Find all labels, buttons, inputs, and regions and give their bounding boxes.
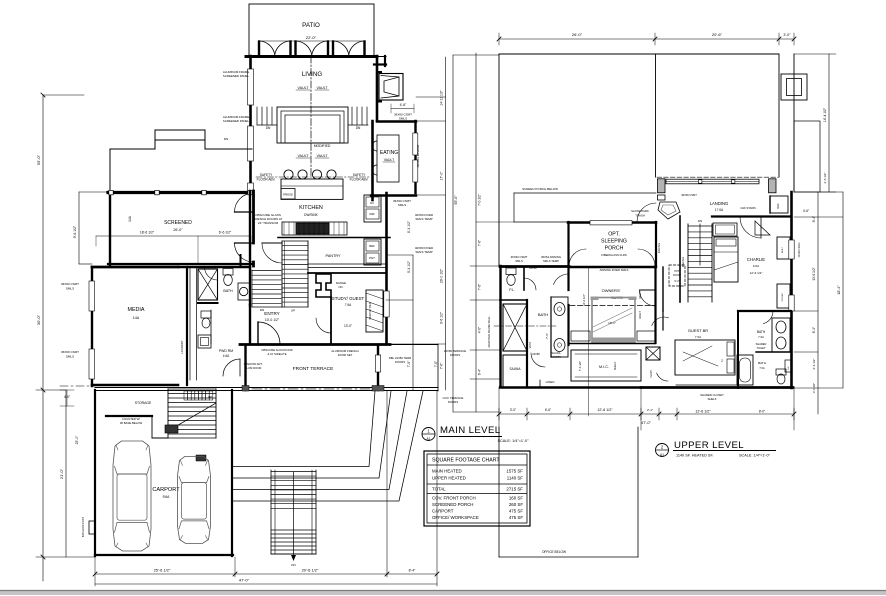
wall in jack bath [756, 351, 790, 353]
svg-text:AWNING WINDOW: AWNING WINDOW [416, 144, 420, 167]
svg-text:OPT.: OPT. [608, 232, 620, 238]
patio door swing arcs [333, 41, 349, 55]
svg-text:475 SF: 475 SF [509, 515, 523, 520]
svg-text:DOORS: DOORS [395, 360, 405, 364]
patio door swing arcs [296, 41, 312, 55]
svg-text:A1: A1 [660, 453, 664, 457]
kitchen island [281, 179, 343, 199]
vanity two sinks [551, 297, 568, 357]
guard rail [151, 416, 153, 438]
mullion 2 [732, 180, 735, 183]
wall band east outer [793, 54, 795, 192]
roof outline top upper [499, 53, 779, 55]
door sauna hall [531, 353, 545, 367]
wall west sleeping porch [567, 222, 569, 266]
wall post gray 2 [769, 179, 777, 193]
guest bed [675, 340, 735, 375]
svg-text:7'-6": 7'-6" [440, 362, 444, 369]
bottom dim row 1 [95, 573, 437, 575]
pantry shelf 2 [308, 267, 386, 269]
door charlie [740, 217, 761, 238]
sauna box [503, 355, 527, 387]
balcony east rect [794, 121, 820, 192]
svg-text:LN: LN [788, 366, 790, 369]
wall east sleeping porch [655, 222, 657, 266]
outdoor stair rail W inner [274, 470, 276, 554]
svg-text:SAFETY: SAFETY [260, 173, 273, 177]
svg-text:3'-0": 3'-0" [783, 33, 791, 37]
svg-text:26'-0": 26'-0" [173, 228, 183, 232]
screen porch roof line [514, 221, 569, 223]
screened panel west living [248, 183, 254, 191]
upper stair treads [688, 225, 712, 227]
svg-text:EATING: EATING [380, 150, 398, 156]
patio door jamb [289, 42, 291, 57]
svg-text:2: 2 [721, 359, 723, 363]
wall north eating nook [377, 120, 416, 122]
svg-text:BATH: BATH [538, 312, 548, 317]
shower main bath [198, 269, 218, 300]
study desk hatch [366, 290, 383, 332]
svg-text:30'-0": 30'-0" [36, 314, 41, 325]
svg-text:TOTAL: TOTAL [432, 487, 446, 492]
living step west [261, 107, 263, 125]
svg-text:7'-6": 7'-6" [478, 240, 482, 246]
svg-text:ALUM DOOR: ALUM DOOR [245, 366, 262, 370]
svg-text:MURPHY BED: MURPHY BED [368, 302, 372, 319]
svg-text:MODIFIED: MODIFIED [314, 144, 331, 148]
svg-text:7 6A: 7 6A [759, 366, 765, 370]
svg-text:SMLS: SMLS [515, 259, 523, 263]
hall line [189, 267, 191, 380]
square footage chart table [424, 451, 530, 526]
living step east [351, 107, 353, 125]
svg-text:LAUNDRY: LAUNDRY [180, 340, 184, 353]
door sleeping porch W [569, 249, 586, 266]
laundry chute X box [646, 347, 660, 360]
svg-text:UP: UP [291, 309, 295, 313]
upper shower X box [503, 304, 527, 351]
closet line guest [676, 384, 740, 386]
svg-text:DN: DN [224, 137, 228, 141]
svg-text:DN: DN [266, 126, 271, 130]
roof dash above north wall [657, 176, 778, 178]
svg-text:SAUNA: SAUNA [552, 351, 561, 355]
patio door swing arcs [259, 41, 275, 55]
terrace edge outer [95, 387, 438, 389]
patio door jamb [294, 42, 296, 57]
outdoor stair center line [293, 472, 295, 559]
wall east shower col [526, 300, 528, 387]
living step west [271, 107, 273, 125]
terrace east wall [377, 345, 379, 390]
svg-text:7'-6": 7'-6" [545, 333, 549, 339]
svg-text:36X60 CSMT: 36X60 CSMT [61, 282, 79, 286]
door sleeping porch E [638, 249, 655, 266]
hall east wall [662, 267, 664, 311]
upper level title circle [656, 444, 669, 457]
svg-text:BATH: BATH [223, 289, 233, 293]
door small [657, 373, 668, 381]
fridge box [281, 189, 295, 200]
svg-text:SMLS TEMP: SMLS TEMP [415, 217, 432, 221]
tall cabinet [364, 239, 381, 265]
svg-text:REF: REF [776, 203, 780, 209]
svg-text:SCREENED PANEL: SCREENED PANEL [223, 74, 250, 78]
svg-text:12'-6 1/2": 12'-6 1/2" [695, 410, 711, 414]
svg-text:SHELF: SHELF [707, 397, 716, 401]
roof outline west upper [498, 54, 500, 266]
patio door jamb [363, 42, 365, 57]
flue niche [316, 274, 331, 297]
wall east suite [654, 266, 656, 343]
svg-text:1575 SF: 1575 SF [506, 469, 523, 474]
svg-text:SMLS: SMLS [399, 117, 407, 121]
svg-text:24X80: 24X80 [532, 352, 540, 356]
terrace west wall [244, 346, 246, 390]
svg-text:FRONT TERRACE: FRONT TERRACE [293, 366, 334, 372]
svg-text:12'-6 1/2": 12'-6 1/2" [582, 294, 586, 306]
svg-text:SCREEN PORCH BELOW: SCREEN PORCH BELOW [522, 187, 558, 191]
svg-text:DOOR SET: DOOR SET [338, 353, 353, 357]
car 2 in carport [178, 457, 211, 544]
charlie bed [714, 237, 738, 282]
chimney box [781, 74, 807, 100]
svg-text:SMLS: SMLS [66, 355, 74, 359]
eating chair 1 [372, 141, 377, 151]
svg-text:SMLS TEMP: SMLS TEMP [543, 259, 559, 263]
svg-text:PANTRY: PANTRY [551, 355, 562, 359]
owners bed (vertical, gray) [592, 298, 635, 343]
wall west living [249, 56, 252, 191]
svg-text:9'6A: 9'6A [163, 495, 170, 499]
wall east eating nook [414, 121, 416, 193]
entry door [257, 322, 259, 344]
tub jack bath [737, 355, 753, 385]
window sleeping porch [590, 221, 632, 225]
dim col far left [42, 95, 44, 581]
wall west entry lower [249, 305, 251, 344]
pwd wall [210, 310, 212, 344]
wall south screened porch [108, 263, 252, 265]
ref closet landing [770, 196, 788, 213]
svg-text:RAILING: RAILING [681, 257, 685, 267]
svg-text:VAULT: VAULT [638, 311, 642, 319]
nightstand W [571, 331, 590, 341]
svg-text:PATIO: PATIO [302, 22, 320, 29]
svg-text:22'-0": 22'-0" [306, 35, 317, 40]
terrace hatched piers [372, 386, 384, 392]
eating table [377, 135, 399, 182]
dim col right upper [828, 54, 830, 192]
svg-text:DN: DN [698, 219, 702, 223]
svg-text:SQUARE FOOTAGE CHART: SQUARE FOOTAGE CHART [432, 458, 500, 464]
outdoor stair treads upper flight [271, 471, 316, 473]
svg-text:7 6A: 7 6A [695, 335, 701, 339]
wall west charlie bath [737, 311, 739, 388]
terrace north edge E [390, 344, 438, 346]
svg-text:16'-1": 16'-1" [608, 321, 616, 325]
svg-text:17'-0": 17'-0" [440, 171, 444, 180]
svg-text:SLEEPING: SLEEPING [601, 239, 627, 245]
wall south carport [95, 554, 233, 556]
wic outline [571, 350, 641, 381]
svg-text:8'-4 1/2": 8'-4 1/2" [407, 220, 411, 233]
kitchen stool [327, 170, 336, 179]
charlie dresser box [713, 223, 737, 236]
dim col far right [842, 192, 844, 388]
svg-text:14A: 14A [133, 316, 140, 320]
bottom dims upper plan [499, 413, 794, 415]
wall west carport [94, 390, 96, 556]
door landing-porch roof [637, 203, 656, 222]
svg-text:& 1F SIDELITE: & 1F SIDELITE [267, 352, 286, 356]
svg-text:P.L.: P.L. [509, 288, 515, 292]
svg-text:BATH: BATH [757, 330, 766, 334]
corner box below post [658, 195, 666, 200]
svg-text:OV: OV [370, 201, 374, 205]
svg-text:7'-0": 7'-0" [407, 360, 411, 367]
toilet PL tank [506, 268, 516, 275]
door guest [652, 317, 669, 326]
svg-text:SHELF: SHELF [613, 361, 617, 370]
svg-text:DN: DN [291, 563, 295, 567]
door bath jack [763, 311, 773, 324]
closet box [198, 335, 211, 348]
svg-text:7 6A: 7 6A [758, 335, 764, 339]
svg-text:FIBERGLASS FLRS: FIBERGLASS FLRS [601, 253, 627, 257]
svg-text:MAIN HEATED: MAIN HEATED [432, 469, 462, 474]
svg-text:26'-0": 26'-0" [572, 32, 583, 37]
living step east [361, 107, 363, 125]
wall west owners suite upper [567, 266, 569, 290]
stone veneer post [89, 521, 95, 534]
terrace east window [375, 355, 380, 372]
svg-text:7'-0 1/2": 7'-0 1/2" [478, 194, 482, 206]
wall west screened porch [109, 192, 111, 265]
svg-text:2'-6 1/2": 2'-6 1/2" [823, 173, 827, 184]
svg-text:REF: REF [369, 244, 375, 248]
svg-text:7'-6": 7'-6" [478, 284, 482, 290]
safety line [256, 176, 369, 178]
wall west entry core [249, 191, 251, 305]
stair bottom line [252, 306, 308, 308]
wall north upper west section [500, 265, 569, 268]
centerline living [310, 56, 312, 176]
pwd toilet tank [201, 311, 211, 318]
PL wall [523, 267, 525, 290]
svg-text:3'-0": 3'-0" [510, 408, 516, 412]
svg-text:25'-6 1/2": 25'-6 1/2" [154, 568, 171, 573]
svg-text:DN: DN [356, 126, 361, 130]
svg-text:SAUNA PARK: SAUNA PARK [631, 209, 649, 213]
svg-text:7'-0": 7'-0" [434, 361, 438, 367]
svg-text:PKT: PKT [674, 269, 679, 273]
svg-text:47'-0": 47'-0" [239, 578, 250, 583]
shower front wall [198, 302, 218, 304]
dim col left outer upper [452, 55, 454, 412]
car 1 in carport [113, 441, 151, 551]
wall east upper [790, 192, 793, 388]
wall north sleeping porch [568, 221, 656, 224]
dim col right inner [817, 192, 819, 414]
svg-text:9'-4 1/2": 9'-4 1/2" [407, 260, 411, 273]
svg-text:PNT: PNT [369, 256, 375, 260]
window east study [384, 291, 389, 317]
svg-text:1140 SF. HEATED SF.: 1140 SF. HEATED SF. [676, 454, 713, 458]
sink main bath [238, 283, 250, 300]
svg-text:20'-6 1/2": 20'-6 1/2" [302, 568, 319, 573]
svg-text:29'-0 1/2": 29'-0 1/2" [440, 268, 444, 283]
main stair rail W [251, 270, 253, 307]
screen post [155, 190, 159, 194]
svg-text:OAK STAIRS: OAK STAIRS [740, 206, 756, 210]
svg-text:SMLS: SMLS [66, 287, 74, 291]
svg-text:9'-2": 9'-2" [674, 279, 679, 283]
kitchen counter band [282, 222, 347, 235]
svg-text:MAIN LEVEL: MAIN LEVEL [440, 425, 501, 436]
wall east house [385, 193, 388, 344]
svg-text:55'-0": 55'-0" [36, 154, 41, 165]
wall north charlie [712, 215, 791, 217]
bath wall stub [240, 255, 242, 267]
svg-text:COV. FRONT PORCH: COV. FRONT PORCH [432, 496, 476, 501]
vanity jack bath [772, 318, 790, 352]
dim extension house SE corner [386, 391, 388, 577]
living step east [356, 107, 358, 125]
wall south eating nook [371, 194, 416, 196]
svg-text:4 6A: 4 6A [223, 354, 230, 358]
wall south upper east [641, 386, 793, 389]
charlie closet 1 [777, 237, 790, 259]
svg-text:LNDRY: LNDRY [650, 370, 653, 378]
svg-text:8X8 ALUM POST: 8X8 ALUM POST [81, 516, 85, 537]
svg-text:2'-1": 2'-1" [647, 408, 653, 412]
wall south house [240, 343, 390, 346]
svg-text:VAULT: VAULT [316, 86, 328, 90]
dim line top upper plan [499, 38, 794, 40]
screen post [109, 190, 113, 194]
svg-text:SMLS: SMLS [398, 203, 406, 207]
wall south upper west [500, 386, 641, 388]
terrace dashdot [252, 388, 370, 390]
walkway rails from terrace to stair [233, 391, 375, 467]
svg-text:LINEN: LINEN [546, 380, 555, 384]
roof outline east [778, 54, 780, 177]
linen jack [785, 360, 791, 372]
double door screened-kitchen [235, 243, 254, 262]
door hall-kitchen [262, 242, 282, 244]
svg-text:6'-4 1/2": 6'-4 1/2" [812, 359, 816, 370]
svg-text:LANDING: LANDING [710, 201, 729, 206]
svg-text:DW/SINK: DW/SINK [304, 213, 319, 217]
svg-text:1140 SF: 1140 SF [507, 476, 524, 481]
main stair rail mid [281, 241, 283, 307]
carport stair treads [168, 388, 216, 390]
outdoor stair rail E inner [311, 470, 313, 554]
svg-text:DOORS: DOORS [450, 353, 460, 357]
wall north owners suite [569, 266, 656, 268]
dim line screened interior [96, 235, 251, 237]
svg-text:13'-0": 13'-0" [344, 324, 352, 328]
sunken living pit outer [277, 107, 348, 143]
dim 4-6 nook [391, 108, 414, 110]
svg-text:18'-6 1/2": 18'-6 1/2" [140, 231, 155, 235]
kitchen stool [298, 170, 307, 179]
wall north bath [178, 266, 250, 268]
svg-text:475 SF: 475 SF [509, 509, 523, 514]
outdoor stair rail E outer [315, 470, 317, 554]
dim line 22-0 [259, 40, 365, 42]
wall north living [246, 55, 377, 58]
svg-text:SMLS TEMP: SMLS TEMP [415, 250, 432, 254]
toilet jack bath [776, 369, 786, 375]
svg-text:CARPORT: CARPORT [152, 487, 180, 493]
svg-text:PORCH: PORCH [605, 246, 624, 252]
dim extension suite [588, 268, 590, 416]
living step west [256, 107, 258, 125]
suite closet band [570, 343, 655, 345]
pantry shelf 1 [308, 263, 386, 265]
svg-text:55'-0": 55'-0" [454, 195, 458, 205]
svg-text:44X80 FIXED: 44X80 FIXED [798, 242, 801, 257]
wall north screened porch [108, 191, 252, 194]
svg-text:FLOOR ABV.: FLOOR ABV. [257, 178, 276, 182]
svg-text:4'-6": 4'-6" [400, 103, 408, 107]
charlie closet 2 [777, 284, 790, 308]
storage partition [106, 415, 152, 417]
svg-text:VENT: VENT [529, 341, 532, 348]
svg-text:LIVING: LIVING [302, 71, 322, 78]
kitchen stool [284, 170, 293, 179]
wall west upper [499, 266, 501, 387]
svg-text:SHARED: SHARED [756, 342, 767, 346]
main stair east flight treads [282, 240, 308, 242]
svg-text:VAULT: VAULT [316, 154, 328, 158]
svg-text:NO.: NO. [339, 285, 344, 289]
svg-text:OFFICE BELOW: OFFICE BELOW [542, 550, 566, 554]
svg-text:MEDIA: MEDIA [127, 307, 144, 313]
svg-text:160 SF: 160 SF [509, 496, 523, 501]
svg-text:20'-6": 20'-6" [712, 32, 723, 37]
svg-text:CHARLIE: CHARLIE [747, 257, 765, 262]
svg-text:25'-0": 25'-0" [75, 435, 79, 444]
wall west kitchen core [252, 191, 255, 243]
svg-text:ENTRY: ENTRY [264, 311, 280, 316]
wall east living [376, 56, 379, 121]
wall south charlie [738, 310, 791, 312]
carport stair break line [168, 403, 216, 431]
eating chair 2 [372, 165, 377, 175]
svg-text:12'-6 1/2": 12'-6 1/2" [597, 408, 613, 412]
window eating east 2 [413, 160, 418, 182]
wall step NE corner [374, 63, 386, 65]
door PL [524, 278, 536, 290]
svg-text:7 6A: 7 6A [345, 303, 352, 307]
dim 9-6 screened [78, 192, 80, 264]
window east charlie 1 [789, 240, 794, 259]
screen porch below outline [514, 192, 656, 194]
window east charlie 2 [789, 295, 794, 311]
kitchen stool [312, 170, 321, 179]
wall east carport [231, 390, 233, 556]
svg-text:4'-0": 4'-0" [478, 327, 482, 333]
storage shelf comb [184, 391, 188, 400]
svg-text:14'-4 1/2": 14'-4 1/2" [823, 107, 827, 122]
mullion 1 [699, 180, 702, 183]
svg-text:GUEST BR: GUEST BR [688, 328, 708, 333]
living step east [366, 107, 368, 125]
